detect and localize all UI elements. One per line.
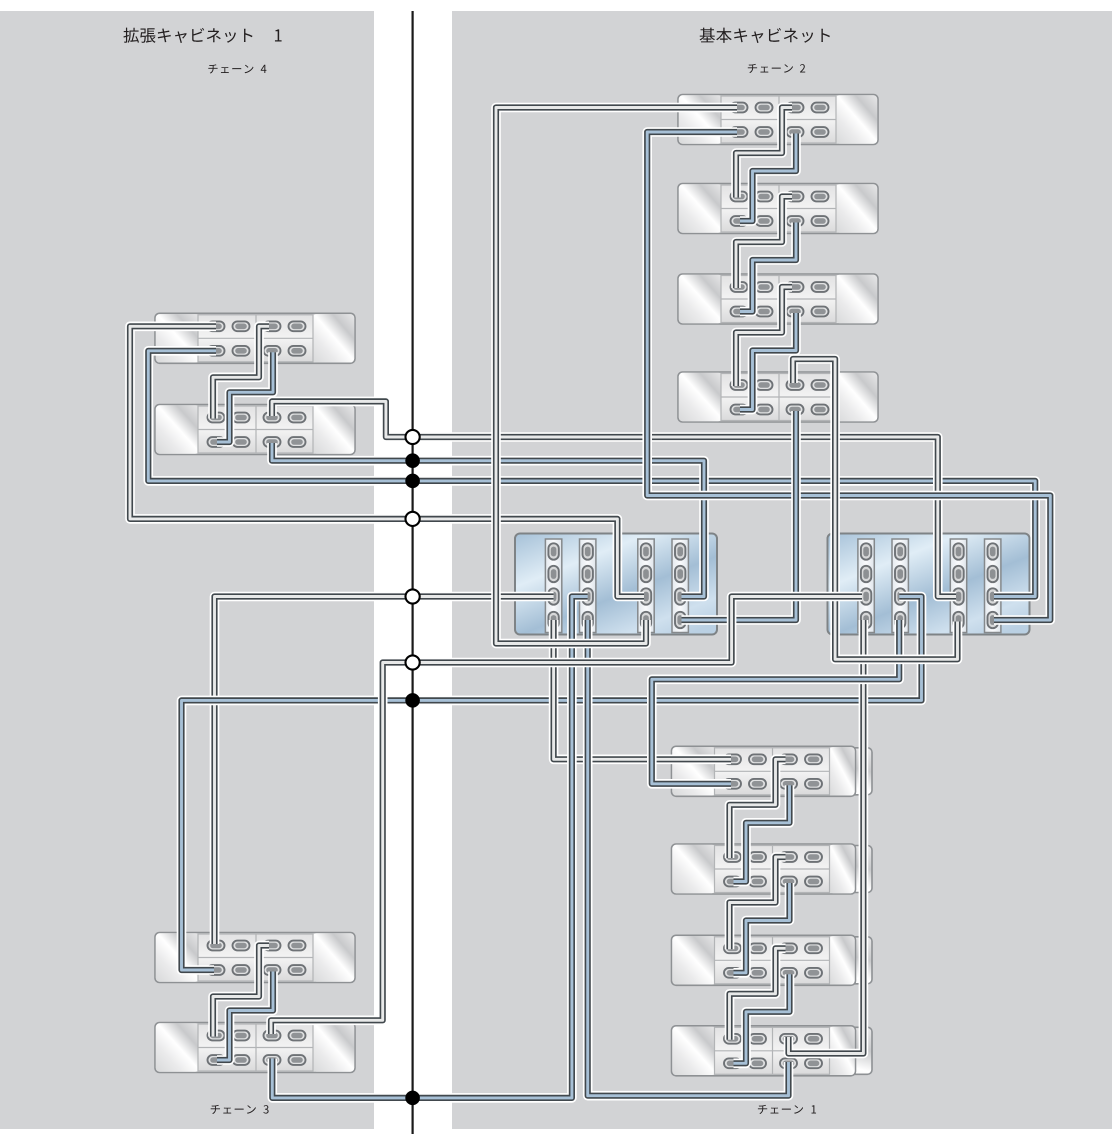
wire G ctrl2.s2.p4 - R1a bot p1 — [652, 620, 899, 784]
controller 2 (right) — [828, 534, 1030, 635]
wire zigzag blue R1c-R1d — [734, 974, 790, 1063]
wire F ctrl2.s2.p3 - chain3a bot p1 — [182, 597, 922, 971]
wire zigzag dark R1a-R1b — [730, 759, 786, 858]
wire J ctrl1.s2.p3 - chain3b bot p3 — [272, 597, 587, 1098]
cabinet panel: expansion cabinet 1 — [0, 11, 374, 1129]
disk shelf L3a (chain3 top) — [155, 933, 355, 983]
wire zigzag blue L4a-L4b — [217, 352, 273, 442]
open junction circle y596 — [406, 589, 420, 603]
label expansion cabinet number — [275, 29, 282, 41]
open junction circle y519 — [406, 512, 420, 526]
wire O R2d bot p3 - ctrl1.s4.p4 — [682, 411, 797, 620]
label base cabinet title — [700, 28, 830, 43]
label chain 3 label — [211, 1105, 256, 1114]
wire zigzag dark R1b-R1c — [730, 857, 786, 949]
wire zigzag dark R2a-R2b — [736, 108, 792, 198]
wire N R2d top p3 - ctrl2.s3.p4 — [793, 359, 958, 659]
disk shelf R2a (chain2 #1) — [678, 95, 878, 145]
wire B L4a bot p1 - ctrl2.s4.p3 — [148, 351, 1035, 597]
filled junction dot y481 — [405, 474, 420, 489]
filled junction dot y1098 — [405, 1091, 420, 1106]
wire zigzag blue R2b-R2c — [740, 223, 796, 312]
wire zigzag blue R2c-R2d — [740, 313, 796, 410]
disk shelf R1a (chain1 #1) — [688, 748, 872, 795]
label chain 2 number — [800, 64, 805, 72]
label chain 1 number — [811, 1105, 816, 1113]
disk shelf L4a (chain4 top) — [155, 313, 355, 363]
label chain 4 number — [261, 65, 267, 73]
wire zigzag dark L3a-L3b — [213, 946, 269, 1037]
disk shelf L4b (chain4 bottom) — [155, 405, 355, 455]
wire Q ctrl2.s1.p4 - R1d top p3 — [789, 620, 864, 1054]
disk shelf R2c (chain2 #3) — [678, 274, 878, 324]
wire zigzag blue L3a-L3b — [217, 972, 273, 1061]
wire zigzag blue R1b-R1c — [734, 883, 790, 973]
wire zigzag blue R2a-R2b — [740, 134, 796, 222]
open junction circle y437 — [406, 430, 420, 444]
wire zigzag blue R1a-R1b — [734, 785, 790, 881]
wire K ctrl1.s2.p4 - R1d bot p3 — [588, 620, 789, 1096]
disk shelf R2b (chain2 #2) — [678, 184, 878, 234]
wire M R2a bot p1 - ctrl2.s4.p4 — [647, 132, 1050, 620]
wire D L4b bot p3 - ctrl1.s4.p3 — [272, 443, 704, 597]
disk shelf R1d (chain1 #4) — [688, 1027, 872, 1074]
wire zigzag dark R2b-R2c — [736, 197, 792, 289]
cabinet boundary line — [412, 11, 414, 1134]
wire H chain3b top p3 - ctrl2.s1.p3 — [271, 597, 862, 1035]
label chain 2 label — [748, 64, 793, 73]
wire C L4b top p3 - ctrl2.s3.p3 — [272, 401, 956, 596]
wire zigzag dark R2c-R2d — [736, 287, 792, 386]
controller 1 (left) — [515, 534, 717, 635]
cabinet panel: base cabinet — [452, 11, 1112, 1129]
disk shelf R2d (chain2 #4) — [678, 372, 878, 422]
disk shelf L3b (chain3 bottom) — [155, 1023, 355, 1073]
disk shelf R1c (chain1 #3) — [688, 937, 872, 984]
wire zigzag dark R1c-R1d — [730, 948, 786, 1040]
label expansion cabinet title — [123, 28, 252, 43]
filled junction dot y461 — [405, 453, 420, 468]
wire zigzag dark L4a-L4b — [213, 326, 269, 418]
filled junction dot y700 — [405, 693, 420, 708]
label chain 4 label — [208, 64, 253, 73]
wire A L4a top p1 - ctrl1.s3.p3 — [130, 326, 644, 596]
open junction circle y662 — [406, 655, 420, 669]
label chain 1 label — [758, 1105, 803, 1114]
disk shelf R1b (chain1 #2) — [688, 846, 872, 893]
wire E ctrl1.s1.p3 - chain3a top p1 — [215, 597, 554, 945]
wire L ctrl1.s3.p4 - R2a top p1 — [496, 108, 737, 644]
wire P ctrl1.s1.p4 - R1a top p1 — [554, 620, 731, 759]
label chain 3 number — [263, 1105, 268, 1114]
